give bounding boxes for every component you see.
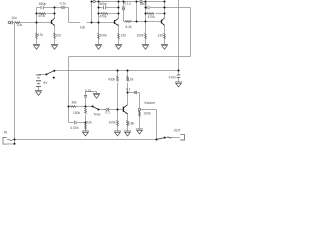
svg-text:100: 100 [56,33,62,37]
svg-text:9V: 9V [43,81,48,85]
svg-text:0.1u: 0.1u [124,2,131,6]
svg-text:560p: 560p [99,2,107,6]
svg-text:470k: 470k [38,14,46,18]
svg-text:0.004: 0.004 [70,126,78,130]
svg-text:0.1: 0.1 [126,87,131,91]
svg-text:22k: 22k [86,121,92,125]
svg-text:8.2k: 8.2k [125,25,132,29]
svg-text:IN: IN [4,131,8,135]
svg-text:470k: 470k [148,15,156,19]
svg-text:0.1u: 0.1u [60,1,67,5]
svg-text:12k: 12k [128,78,134,82]
svg-text:100k: 100k [144,111,152,115]
svg-text:100k: 100k [137,33,145,37]
svg-text:6.8k: 6.8k [128,121,135,125]
svg-text:100k: 100k [100,33,108,37]
svg-text:39k: 39k [71,101,77,105]
svg-text:100k: 100k [109,121,117,125]
svg-text:OUT: OUT [174,129,181,133]
svg-text:0.01: 0.01 [85,89,92,93]
svg-text:10k: 10k [80,25,86,29]
svg-text:47k: 47k [38,33,44,37]
svg-text:470n: 470n [169,75,177,79]
svg-text:130: 130 [157,33,163,37]
svg-text:100k: 100k [73,111,81,115]
svg-text:130: 130 [120,33,126,37]
svg-text:Volume: Volume [144,101,155,105]
svg-text:10u: 10u [11,16,17,20]
svg-text:0.1: 0.1 [105,110,110,114]
svg-text:430k: 430k [108,78,116,82]
svg-text:Tone: Tone [93,112,100,116]
svg-text:10k: 10k [17,23,23,27]
svg-text:470k: 470k [99,14,107,18]
svg-text:560p: 560p [39,2,47,6]
svg-text:560p: 560p [140,2,148,6]
